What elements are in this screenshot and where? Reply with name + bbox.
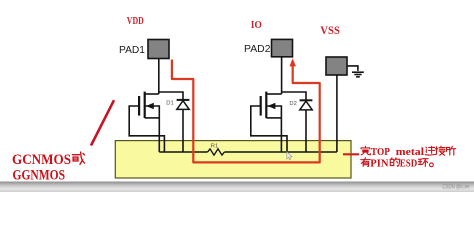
chinese note line2: YOU 'PIN' DE 'ESD' HUAN bbox=[361, 158, 434, 167]
chinese note line1: KUAN 'TOP metal' LIAN JIE SUO bbox=[361, 146, 456, 155]
svg-text:VDD: VDD bbox=[127, 16, 144, 27]
svg-text:CSDN @ic.ee: CSDN @ic.ee bbox=[443, 184, 470, 191]
transistor M1 (GGNMOS) bbox=[129, 92, 164, 152]
svg-text:VSS: VSS bbox=[320, 25, 340, 37]
ground bbox=[347, 66, 364, 77]
svg-text:GCNMOS: GCNMOS bbox=[12, 152, 71, 168]
resistor R1 bbox=[208, 149, 225, 155]
svg-text:GGNMOS: GGNMOS bbox=[13, 168, 66, 184]
red annotation pointer line (to chinese note) bbox=[343, 153, 359, 155]
diode D1 bbox=[177, 100, 190, 152]
hanzi JIE bbox=[435, 146, 445, 155]
red ESD current path PAD1 to PAD2 bbox=[172, 60, 320, 163]
svg-text:D2: D2 bbox=[289, 101, 296, 107]
VSS bus wire (right of R1) bbox=[224, 151, 337, 153]
svg-text:TOP: TOP bbox=[371, 146, 390, 158]
fullwidth period bbox=[430, 163, 434, 167]
svg-text:D1: D1 bbox=[166, 101, 173, 107]
VSS bus wire (left of R1) bbox=[159, 151, 207, 153]
svg-text:PAD1: PAD1 bbox=[119, 44, 145, 56]
ESD ring bus bar (yellow) bbox=[115, 141, 351, 178]
svg-text:IO: IO bbox=[251, 19, 262, 31]
wire drain junction to diode D1 bbox=[159, 92, 183, 100]
hanzi KUAN bbox=[361, 146, 370, 155]
svg-text:ESD: ESD bbox=[400, 157, 418, 169]
wire PAD2 to drain bbox=[281, 57, 283, 94]
wire drain junction to diode D2 bbox=[282, 92, 306, 100]
hanzi HUO (or) bbox=[72, 152, 84, 164]
transistor M2 (GGNMOS) bbox=[251, 92, 287, 152]
hanzi DE bbox=[390, 158, 399, 166]
pad PAD2 bbox=[272, 39, 293, 56]
bottom window-edge gray band bbox=[0, 182, 474, 193]
hanzi YOU bbox=[361, 158, 370, 167]
svg-text:metal: metal bbox=[396, 146, 424, 158]
hanzi LIAN bbox=[425, 146, 435, 155]
svg-text:PAD2: PAD2 bbox=[244, 43, 271, 55]
pad PAD1 bbox=[148, 40, 169, 59]
svg-text:PIN: PIN bbox=[370, 157, 388, 169]
wire VSS pad to bus bbox=[336, 75, 338, 152]
hanzi HUAN bbox=[418, 159, 428, 167]
diode D2 bbox=[300, 100, 313, 152]
red annotation pointer line (diagonal) bbox=[91, 100, 114, 145]
red arrowhead at PAD2 bbox=[290, 58, 296, 66]
mouse cursor bbox=[287, 152, 292, 160]
pad VSS bbox=[326, 57, 347, 75]
wire PAD1 to drain bbox=[158, 59, 160, 95]
svg-text:R1: R1 bbox=[211, 143, 218, 149]
hanzi SUO bbox=[447, 146, 456, 155]
